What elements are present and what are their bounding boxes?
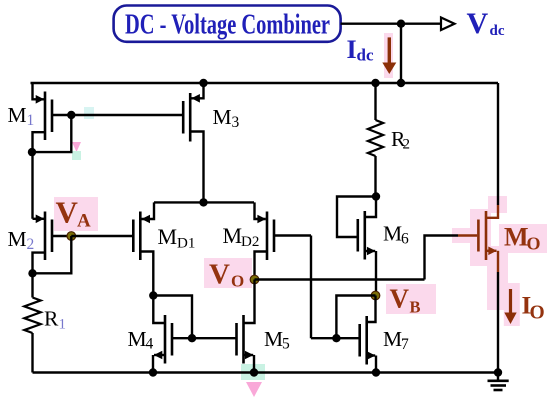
- node VA olive dot: [67, 232, 76, 241]
- transistor MO: [458, 205, 498, 272]
- svg-text:2: 2: [27, 236, 35, 253]
- svg-text:4: 4: [146, 336, 154, 353]
- svg-text:D1: D1: [177, 236, 195, 252]
- wire Vdc node down to top rail: [400, 24, 402, 83]
- node VB olive dot: [371, 291, 380, 300]
- svg-text:M: M: [264, 327, 283, 351]
- label VO: [209, 259, 244, 291]
- title box: DC - Voltage Combiner: [114, 6, 341, 42]
- ground rail: [33, 371, 499, 373]
- label VA: [56, 195, 92, 232]
- transistor M4: [153, 315, 192, 373]
- transistor MD1: [133, 202, 154, 295]
- transistor M3: [183, 83, 203, 202]
- svg-text:2: 2: [403, 137, 411, 153]
- svg-text:O: O: [530, 303, 545, 324]
- label Idc: [347, 35, 374, 65]
- node dot MD1 drain: [149, 291, 157, 299]
- label R2: [391, 127, 410, 153]
- svg-text:V: V: [56, 195, 79, 230]
- wire M1 gate row to M3: [71, 114, 183, 116]
- wire M6 gate tie loop: [337, 197, 376, 238]
- svg-text:M: M: [504, 223, 529, 252]
- wire VA tie to M2 drain: [33, 236, 72, 273]
- wire M1 gate tie to drain: [33, 115, 72, 152]
- svg-text:M: M: [213, 105, 232, 129]
- transistor M1: [33, 83, 72, 152]
- wire tail bus: [154, 201, 254, 203]
- node dot M1 drain: [28, 148, 36, 156]
- terminal triangle Vdc: [441, 18, 455, 31]
- node dot M1 gate tie: [67, 111, 75, 119]
- node dot M4 gate: [188, 334, 196, 342]
- label MO: [504, 223, 541, 254]
- svg-text:V: V: [467, 7, 489, 40]
- ground symbol: [488, 373, 509, 391]
- node dot M6 drain: [372, 192, 380, 200]
- wire M4 gate to M5 gate: [192, 337, 237, 339]
- svg-text:O: O: [231, 272, 244, 291]
- wire VB down to M7 drain: [368, 296, 376, 323]
- label M3: [213, 105, 240, 131]
- node dot M7 source: [372, 368, 380, 376]
- wire MD1 drain down to M4 drain: [153, 296, 164, 324]
- svg-text:M: M: [128, 327, 147, 351]
- svg-text:M: M: [158, 224, 178, 249]
- label MD2: [223, 223, 260, 250]
- svg-text:DC - Voltage Combiner: DC - Voltage Combiner: [125, 10, 330, 41]
- wire MO source down to ground rail: [497, 272, 499, 373]
- svg-text:6: 6: [401, 230, 409, 247]
- label IO: [522, 293, 545, 324]
- resistor R1: [24, 273, 40, 372]
- node dot Vdc: [397, 20, 405, 28]
- svg-text:D2: D2: [241, 234, 259, 250]
- svg-text:V: V: [390, 284, 410, 314]
- svg-text:3: 3: [232, 114, 240, 131]
- svg-text:A: A: [77, 211, 91, 232]
- node dot Idc on rail: [397, 79, 405, 87]
- node dot M2 drain: [28, 269, 36, 277]
- wire VO down to M5 drain: [245, 280, 255, 324]
- svg-text:dc: dc: [490, 23, 505, 39]
- node dot M7 gate: [332, 334, 340, 342]
- label R1: [44, 307, 66, 333]
- label Vdc: [467, 7, 505, 40]
- svg-text:O: O: [527, 234, 541, 254]
- svg-text:I: I: [347, 35, 357, 64]
- resistor R2: [368, 83, 383, 197]
- wire VB tie to M7 gate: [336, 296, 375, 339]
- transistor M5: [237, 315, 255, 373]
- wire MD2 gate riser down to M7 gate: [310, 236, 312, 339]
- wire VO riser to MO gate row: [425, 236, 459, 280]
- label M7: [383, 327, 409, 353]
- transistor M7: [311, 316, 376, 373]
- svg-text:7: 7: [401, 336, 409, 353]
- svg-text:M: M: [8, 227, 27, 251]
- svg-text:B: B: [410, 298, 421, 317]
- svg-text:M: M: [383, 222, 402, 246]
- svg-text:1: 1: [59, 317, 67, 333]
- node dot M4 source: [149, 368, 157, 376]
- svg-text:5: 5: [282, 336, 290, 353]
- label M5: [264, 327, 290, 353]
- svg-text:M: M: [223, 223, 243, 248]
- svg-text:V: V: [209, 259, 230, 291]
- node dot M5 source: [250, 368, 258, 376]
- wire left bus M1 drain to M2 source: [31, 152, 33, 219]
- label MD1: [158, 224, 196, 252]
- svg-text:R: R: [44, 307, 59, 331]
- label M6: [383, 222, 409, 248]
- wire VA row to MD1 gate: [71, 235, 133, 237]
- node VO olive dot: [250, 275, 259, 284]
- transistor MD2: [255, 202, 312, 279]
- svg-text:1: 1: [27, 112, 35, 129]
- svg-text:M: M: [383, 327, 402, 351]
- wire VO row right: [255, 278, 425, 280]
- node dot M3 source on rail: [199, 79, 207, 87]
- wire right bus from rail down: [497, 83, 499, 205]
- node dot tail (M3 drain / MD sources): [199, 198, 207, 206]
- node dot R2 top: [371, 79, 379, 87]
- label M1: [8, 103, 35, 129]
- transistor M6: [358, 197, 376, 296]
- current arrow Idc: [382, 37, 396, 74]
- label M2: [8, 227, 35, 253]
- wire MD1 drain to M4 gate tie: [153, 296, 192, 339]
- current arrow IO: [504, 289, 516, 324]
- svg-text:dc: dc: [357, 46, 374, 65]
- transistor M2: [33, 212, 72, 274]
- top supply rail: [31, 82, 499, 84]
- node dot ground: [494, 368, 502, 376]
- wire Vdc node right to terminal: [401, 23, 441, 25]
- svg-text:M: M: [8, 103, 27, 127]
- label M4: [128, 327, 154, 353]
- label VB: [390, 284, 421, 317]
- wire box to Vdc node: [341, 23, 401, 25]
